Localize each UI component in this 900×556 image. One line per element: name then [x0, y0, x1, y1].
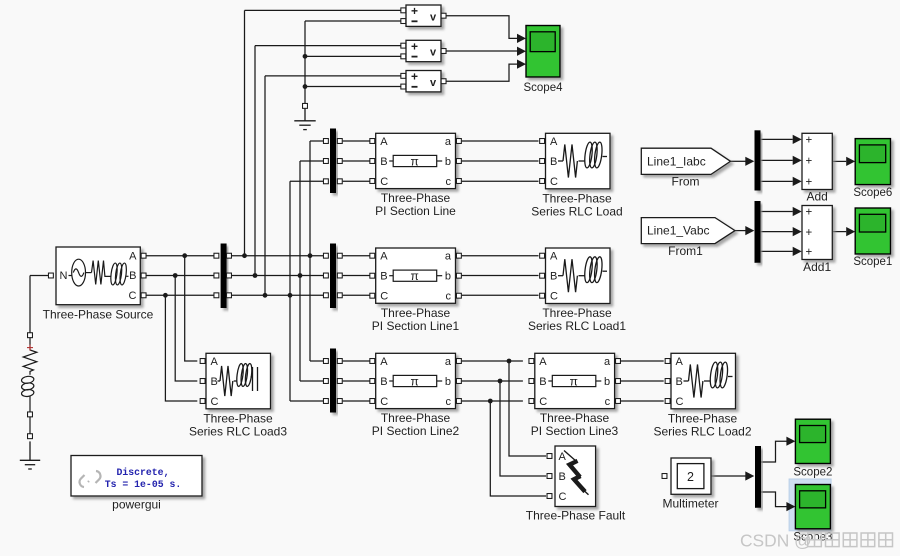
pin vm2 - — [401, 54, 406, 59]
pin Bus2 left — [323, 253, 328, 258]
wire From1 to Demux1 — [735, 230, 746, 232]
svg-text:+: + — [411, 4, 418, 18]
demux Demux (after From) — [755, 130, 761, 190]
pin PI Section Line3 c — [616, 399, 621, 404]
pin Bus1 left — [214, 273, 219, 278]
arrowhead into Scope6 — [846, 157, 855, 166]
arrowhead into Add port 3 — [793, 177, 802, 186]
pin PI Section Line b — [456, 159, 461, 164]
svg-text:N: N — [60, 270, 68, 282]
svg-text:A: A — [380, 251, 388, 263]
svg-text:a: a — [445, 356, 452, 368]
svg-text:Series RLC Load1: Series RLC Load1 — [528, 319, 626, 333]
node B riser junction (junction) — [298, 273, 303, 278]
pin Series RLC Load2 A — [665, 359, 670, 364]
pin vm1 + — [401, 8, 406, 13]
arrowhead into Scope4 port 2 — [517, 47, 526, 56]
scope Scope1 — [855, 208, 890, 254]
pin Series RLC Load B — [540, 159, 545, 164]
wire Demux1 out3 to Add1 in3 — [761, 250, 793, 252]
pin Bus2 right — [337, 253, 342, 258]
node C / fault tap (junction) — [488, 399, 493, 404]
wire phase C tap down to RLC Load3 C — [165, 295, 197, 401]
pin Series RLC Load2 C — [665, 399, 670, 404]
node B / vm2 tap (junction) — [253, 273, 258, 278]
selection highlight around Scope3 — [789, 479, 831, 531]
svg-text:C: C — [539, 396, 547, 408]
svg-text:B: B — [676, 376, 683, 388]
pin top bus right — [337, 139, 342, 144]
svg-text:Line1_Iabc: Line1_Iabc — [647, 154, 706, 168]
pin PI Section Line2 B — [370, 379, 375, 384]
pin Bus1 right — [227, 273, 232, 278]
wire phase C into bottom Bus — [290, 400, 323, 402]
svg-text:+: + — [806, 227, 813, 239]
arrowhead into Scope4 port 3 — [517, 60, 526, 69]
arrowhead into Add1 port 3 — [793, 247, 802, 256]
svg-text:Series RLC Load: Series RLC Load — [531, 204, 622, 218]
arrowhead into Add1 port 1 — [793, 207, 802, 216]
wire vm2 - input — [305, 55, 401, 57]
pin Ground2 input — [28, 434, 33, 439]
wire vm1 - input — [305, 20, 401, 22]
node A / Load3 tap (junction) — [182, 253, 187, 258]
wire vm1 output to Scope4 in1 — [444, 16, 519, 39]
svg-text:a: a — [445, 136, 452, 148]
svg-text:powergui: powergui — [112, 498, 161, 512]
svg-text:PI Section Line: PI Section Line — [375, 204, 456, 218]
pin Bus2 left — [323, 293, 328, 298]
svg-text:v: v — [430, 47, 437, 59]
svg-text:Ts = 1e-05 s.: Ts = 1e-05 s. — [105, 479, 181, 490]
load Series RLC Load2 — [671, 353, 736, 409]
wire vm1 + input from node A tap — [245, 9, 401, 11]
pin PI Section Line2 a — [456, 359, 461, 364]
demux Demux2 (after Multimeter) — [755, 446, 761, 508]
wire Multimeter to Demux2 — [711, 475, 746, 477]
pin top bus right — [337, 179, 342, 184]
pin Bus2 right — [337, 273, 342, 278]
pin top bus left — [323, 139, 328, 144]
wire common - net down to Ground1 — [304, 21, 306, 103]
node A riser junction (junction) — [308, 253, 313, 258]
svg-text:C: C — [550, 291, 558, 303]
pin PI Section Line3 a — [616, 359, 621, 364]
pin fault B — [547, 474, 552, 479]
wire Demux2 out1 to Scope2 — [761, 441, 787, 462]
pin Series RLC Load2 B — [665, 379, 670, 384]
pin top bus left — [323, 159, 328, 164]
svg-text:+: + — [806, 247, 813, 259]
svg-text:From1: From1 — [668, 244, 703, 258]
wire PI Section Line2 a to PI Section Line3 A — [462, 360, 523, 362]
svg-text:Three-Phase: Three-Phase — [542, 191, 612, 205]
svg-text:b: b — [445, 271, 451, 283]
goto-from tag From (Line1_Iabc) — [641, 148, 730, 174]
node C / vm3 tap (junction) — [263, 293, 268, 298]
wire From to Demux — [731, 160, 747, 162]
arrowhead into Add port 1 — [793, 135, 802, 144]
U2 voltage measurement Vbc — [406, 40, 441, 62]
watermark CSDN — [740, 531, 893, 551]
svg-text:C: C — [550, 176, 558, 188]
arrowhead into Scope2 — [786, 437, 795, 446]
wire vm3 output to Scope4 in3 — [444, 64, 519, 81]
svg-text:PI Section Line2: PI Section Line2 — [372, 424, 460, 438]
pin Series RLC Load3 B — [200, 379, 205, 384]
svg-text:+: + — [411, 40, 418, 54]
svg-text:B: B — [550, 271, 557, 283]
wire phase A tap to Three-Phase Fault A — [509, 361, 546, 456]
pin source B — [141, 273, 146, 278]
scope Scope2 — [795, 419, 830, 463]
arrowhead into Add port 2 — [793, 156, 802, 165]
svg-text:Scope2: Scope2 — [793, 467, 832, 479]
pin Series RLC Load1 B — [540, 273, 545, 278]
U1 voltage measurement Vab — [406, 4, 441, 26]
scope Scope4 — [526, 26, 560, 78]
svg-text:π: π — [570, 374, 578, 388]
summer Add1 — [802, 206, 832, 260]
svg-text:B: B — [380, 376, 387, 388]
svg-text:Three-Phase Source: Three-Phase Source — [43, 308, 154, 322]
pin Bus2 left — [323, 273, 328, 278]
svg-text:b: b — [445, 156, 451, 168]
pin shunt branch - — [28, 412, 33, 417]
svg-text:Three-Phase: Three-Phase — [540, 411, 610, 425]
svg-text:Multimeter: Multimeter — [662, 497, 718, 511]
goto-from tag From1 (Line1_Vabc) — [641, 218, 735, 244]
wire vm3 - input — [305, 86, 401, 88]
svg-text:PI Section Line1: PI Section Line1 — [372, 319, 460, 333]
svg-text:Series RLC Load2: Series RLC Load2 — [653, 424, 751, 438]
svg-text:Three-Phase: Three-Phase — [203, 411, 273, 425]
bus bar Bus1 (at source) — [221, 244, 227, 309]
svg-text:Scope4: Scope4 — [523, 82, 563, 94]
wire vm2 + input from node B tap — [255, 45, 401, 47]
pin PI Section Line3 C — [529, 399, 534, 404]
transmission line PI Section Line1 — [376, 248, 456, 303]
pin vm1 out — [441, 13, 446, 18]
pin source C — [141, 293, 146, 298]
pin PI Section Line3 A — [529, 359, 534, 364]
svg-text:Three-Phase: Three-Phase — [381, 306, 451, 320]
wire top bus A to PI Section Line A — [343, 140, 370, 142]
breaker Three-Phase Fault — [555, 446, 596, 507]
pin PI Section Line C — [370, 179, 375, 184]
meter Multimeter — [671, 458, 711, 494]
pin PI Section Line2 A — [370, 359, 375, 364]
transmission line PI Section Line2 — [376, 353, 456, 408]
transmission line PI Section Line — [376, 133, 456, 188]
wire PI Section Line b to RLC Load B — [462, 160, 539, 162]
node minus net / vm2 (junction) — [303, 54, 308, 59]
arrowhead into Add1 port 2 — [793, 227, 802, 236]
svg-text:π: π — [411, 154, 419, 168]
wire source N to shunt branch — [30, 275, 48, 277]
wire PI Section Line3 c to RLC Load2 C — [621, 400, 664, 402]
node B / fault tap (junction) — [498, 379, 503, 384]
ground Ground1 (measurement reference) — [294, 109, 315, 130]
svg-text:B: B — [129, 270, 136, 282]
svg-text:c: c — [605, 396, 611, 408]
pin top bus right — [337, 159, 342, 164]
svg-text:Three-Phase Fault: Three-Phase Fault — [526, 509, 626, 523]
svg-text:Three-Phase: Three-Phase — [381, 411, 451, 425]
svg-text:C: C — [380, 396, 388, 408]
pin vm3 + — [401, 73, 406, 78]
svg-text:a: a — [445, 251, 452, 263]
arrowhead into Demux1 — [745, 226, 754, 235]
pin Series RLC Load C — [540, 179, 545, 184]
pin vm1 - — [401, 19, 406, 24]
wire PI Section Line3 b to RLC Load2 B — [621, 380, 664, 382]
solver block powergui — [71, 456, 202, 497]
wire PI Section Line3 a to RLC Load2 A — [621, 360, 664, 362]
wire Add1 to Scope1 — [833, 231, 847, 233]
svg-text:Line1_Vabc: Line1_Vabc — [647, 224, 710, 238]
arrowhead into Demux2 — [745, 471, 754, 480]
svg-text:Three-Phase: Three-Phase — [542, 306, 612, 320]
node minus net / vm3 (junction) — [303, 84, 308, 89]
svg-text:Discrete,: Discrete, — [117, 467, 170, 478]
svg-text:A: A — [676, 356, 684, 368]
node C riser junction (junction) — [288, 293, 293, 298]
wire Demux1 out1 to Add1 in1 — [761, 211, 793, 213]
pin vm3 - — [401, 84, 406, 89]
pin vm2 out — [441, 49, 446, 54]
pin PI Section Line a — [456, 139, 461, 144]
pin Bus1 left — [214, 293, 219, 298]
wire phase A source to Bus1 — [146, 255, 214, 257]
wire Add to Scope6 — [833, 160, 847, 162]
svg-text:A: A — [129, 250, 137, 262]
wire vertical node B tap to Vbc measurement — [254, 46, 256, 276]
svg-text:+: + — [806, 135, 813, 147]
wire Demux out2 to Add in2 — [761, 159, 793, 161]
svg-text:+: + — [806, 156, 813, 168]
svg-text:A: A — [380, 356, 388, 368]
pin PI Section Line1 B — [370, 273, 375, 278]
wire phase B into bottom Bus — [300, 380, 323, 382]
wire phase B into top Bus — [300, 160, 323, 162]
svg-text:Three-Phase: Three-Phase — [668, 411, 738, 425]
voltage source U4 Three-Phase Source — [56, 247, 140, 305]
pin PI Section Line2 c — [456, 399, 461, 404]
pin Series RLC Load3 C — [200, 399, 205, 404]
wire PI Section Line1 b to RLC Load1 B — [462, 275, 539, 277]
svg-text:b: b — [445, 376, 451, 388]
scope Scope6 — [855, 139, 890, 185]
pin Series RLC Load1 C — [540, 293, 545, 298]
pin PI Section Line c — [456, 179, 461, 184]
svg-text:π: π — [411, 269, 419, 283]
wire Demux1 out2 to Add1 in2 — [761, 231, 793, 233]
pin Bus1 right — [227, 253, 232, 258]
wire bottom bus A to PI Section Line2 A — [343, 360, 370, 362]
bus bar Bus3 (feeds PI Section Line2) — [330, 349, 336, 413]
svg-text:C: C — [129, 290, 137, 302]
wire PI Section Line2 c to PI Section Line3 C — [462, 400, 523, 402]
transmission line PI Section Line3 — [535, 353, 615, 408]
svg-text:From: From — [672, 175, 700, 189]
svg-text:B: B — [380, 156, 387, 168]
svg-text:Scope1: Scope1 — [853, 256, 892, 268]
wire phase A into top Bus — [310, 140, 323, 142]
svg-text:A: A — [559, 451, 567, 463]
pin Bus3 left — [323, 379, 328, 384]
pin fault A — [547, 454, 552, 459]
svg-text:+: + — [806, 177, 813, 189]
pin Bus3 right — [337, 379, 342, 384]
wire phase A tap down to RLC Load3 A — [185, 256, 198, 361]
wire bottom bus C to PI Section Line2 C — [343, 400, 370, 402]
pin vm3 out — [441, 79, 446, 84]
pin PI Section Line B — [370, 159, 375, 164]
pin Series RLC Load1 A — [540, 253, 545, 258]
pin Bus3 right — [337, 399, 342, 404]
wire bottom bus B to PI Section Line2 B — [343, 380, 370, 382]
svg-text:C: C — [559, 491, 567, 503]
pin Bus3 left — [323, 359, 328, 364]
pin PI Section Line3 B — [529, 379, 534, 384]
pin Bus1 left — [214, 253, 219, 258]
wire top bus C to PI Section Line C — [343, 180, 370, 182]
wire phase B tap down to RLC Load3 B — [175, 276, 197, 382]
svg-text:v: v — [430, 77, 437, 89]
pin Bus3 left — [323, 399, 328, 404]
polarity marker (red) on shunt branch — [27, 345, 33, 351]
wire PI Section Line1 c to RLC Load1 C — [462, 294, 539, 296]
pin PI Section Line2 b — [456, 379, 461, 384]
node C / Load3 tap (junction) — [163, 293, 168, 298]
svg-text:Three-Phase: Three-Phase — [381, 191, 451, 205]
wire phase B source to Bus1 — [146, 275, 214, 277]
load Series RLC Load — [546, 133, 611, 189]
wire PI Section Line c to RLC Load C — [462, 180, 539, 182]
pin PI Section Line1 C — [370, 293, 375, 298]
load Series RLC Load3 — [206, 353, 271, 409]
arrowhead into Scope4 port 1 — [517, 34, 526, 43]
pin fault C — [547, 494, 552, 499]
wire phase B Bus1 to Bus2 — [232, 275, 323, 277]
svg-text:B: B — [211, 376, 218, 388]
pin vm2 + — [401, 43, 406, 48]
wire Demux out3 to Add in3 — [761, 180, 793, 182]
ground Ground2 (source neutral) — [20, 441, 40, 469]
arrowhead into Demux — [745, 157, 754, 166]
pin Bus1 right — [227, 293, 232, 298]
svg-text:C: C — [211, 396, 219, 408]
arrowhead into Scope3 — [786, 502, 795, 511]
U3 voltage measurement Vca — [406, 70, 441, 92]
arrowhead into Scope1 — [846, 227, 855, 236]
pin PI Section Line2 C — [370, 399, 375, 404]
svg-text:+: + — [806, 207, 813, 219]
svg-text:B: B — [380, 271, 387, 283]
pin Multimeter in — [662, 474, 667, 479]
svg-text:A: A — [539, 356, 547, 368]
wire phase C riser — [289, 181, 291, 401]
pin PI Section Line1 a — [456, 253, 461, 258]
pin Bus3 right — [337, 359, 342, 364]
svg-text:B: B — [539, 376, 546, 388]
bus bar Bus2 (feeds PI Section Line1) — [330, 244, 336, 309]
pin Bus2 right — [337, 293, 342, 298]
node B / Load3 tap (junction) — [173, 273, 178, 278]
wire phase A into bottom Bus — [310, 360, 323, 362]
wire vm3 + input from node C tap — [265, 75, 401, 77]
svg-text:A: A — [550, 251, 558, 263]
wire shunt branch vertical — [29, 276, 31, 333]
pin PI Section Line1 A — [370, 253, 375, 258]
series RLC branch (source grounding) — [21, 338, 37, 434]
svg-text:+: + — [411, 70, 418, 84]
pin Ground1 input — [303, 103, 308, 108]
wire phase C tap to Three-Phase Fault C — [490, 401, 546, 496]
wire phase A Bus1 to Bus2 — [232, 255, 323, 257]
svg-text:CSDN @: CSDN @ — [740, 531, 812, 551]
node A / fault tap (junction) — [507, 359, 512, 364]
svg-text:C: C — [380, 176, 388, 188]
svg-text:2: 2 — [687, 470, 694, 484]
svg-text:Scope6: Scope6 — [853, 187, 892, 199]
svg-text:Series RLC Load3: Series RLC Load3 — [189, 424, 287, 438]
svg-text:c: c — [446, 291, 452, 303]
pin PI Section Line1 c — [456, 293, 461, 298]
pin Series RLC Load3 A — [200, 359, 205, 364]
scope Scope3 — [795, 485, 830, 529]
load Series RLC Load1 — [546, 248, 611, 304]
svg-text:Add1: Add1 — [803, 260, 831, 274]
pin PI Section Line1 b — [456, 273, 461, 278]
wire vm2 output to Scope4 in2 — [444, 50, 519, 52]
pin PI Section Line3 b — [616, 379, 621, 384]
svg-text:B: B — [559, 471, 566, 483]
wire phase C into top Bus — [290, 180, 323, 182]
wire vertical node C tap to Vca measurement — [264, 76, 266, 295]
wire Demux2 out2 to Scope3 — [761, 492, 787, 507]
svg-text:c: c — [446, 396, 452, 408]
svg-text:a: a — [604, 356, 611, 368]
pin PI Section Line A — [370, 139, 375, 144]
wire phase A riser (top bus to bottom bus) — [309, 141, 311, 361]
wire PI Section Line2 b to PI Section Line3 B — [462, 380, 523, 382]
svg-text:c: c — [446, 176, 452, 188]
wire Bus2 A to PI Section Line1 A — [343, 255, 370, 257]
svg-text:v: v — [430, 11, 437, 23]
wire Bus2 B to PI Section Line1 B — [343, 275, 370, 277]
pin source A — [141, 253, 146, 258]
wire vertical node A tap to Vab measurement — [244, 10, 246, 255]
demux Demux1 (after From1) — [755, 201, 761, 263]
pin top bus left — [323, 179, 328, 184]
wire phase C source to Bus1 — [146, 294, 214, 296]
wire Demux out1 to Add in1 — [761, 138, 793, 140]
wire Bus2 C to PI Section Line1 C — [343, 294, 370, 296]
svg-text:b: b — [604, 376, 610, 388]
pin source N — [48, 273, 53, 278]
svg-text:C: C — [676, 396, 684, 408]
pin Series RLC Load A — [540, 139, 545, 144]
svg-text:π: π — [411, 374, 419, 388]
svg-text:A: A — [211, 356, 219, 368]
svg-text:A: A — [380, 136, 388, 148]
svg-text:C: C — [380, 291, 388, 303]
summer Add — [802, 133, 832, 189]
node A / vm1 tap (junction) — [242, 253, 247, 258]
wire phase C Bus1 to Bus2 — [232, 294, 323, 296]
